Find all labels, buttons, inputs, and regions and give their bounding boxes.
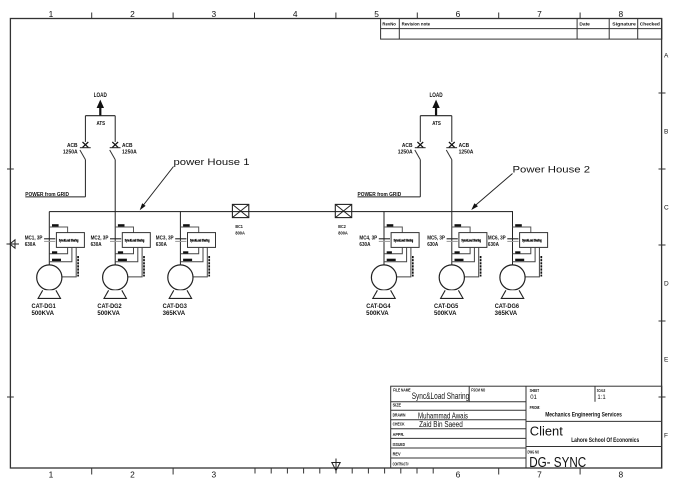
wire sync box 4 voltage signal — [384, 247, 407, 261]
value label BC1 800A — [235, 224, 245, 235]
svg-text:ATS: ATS — [432, 121, 441, 127]
label (illegible) voltage signal 3 — [183, 259, 192, 261]
svg-text:1250A: 1250A — [122, 150, 137, 156]
generator G1 circle — [37, 265, 62, 290]
svg-text:Power House 2: Power House 2 — [513, 165, 591, 175]
svg-text:MC2, 3P: MC2, 3P — [91, 235, 109, 241]
label (vertical, illegible) speed signal 4 — [412, 256, 414, 277]
svg-text:SCALE: SCALE — [597, 388, 606, 393]
svg-text:1250A: 1250A — [459, 150, 474, 156]
svg-text:POWER from GRID: POWER from GRID — [25, 192, 69, 198]
label (illegible) close signal 5 — [455, 251, 460, 253]
generator G1 stand — [38, 290, 60, 298]
sync &amp; load sharing controller box 3 — [188, 233, 216, 248]
svg-text:C: C — [664, 205, 669, 212]
load arrow (power house 2) — [432, 100, 439, 116]
breaker MC5 630A — [447, 239, 458, 242]
label (illegible) voltage signal 6 — [515, 259, 524, 261]
value label MC5, 3P 630A — [427, 235, 445, 248]
svg-text:500KVA: 500KVA — [97, 311, 120, 317]
wire POWER from GRID (PH2) — [358, 196, 421, 198]
svg-text:Sync&Load Sharing: Sync&Load Sharing — [394, 239, 414, 243]
generator G2 stand — [104, 290, 126, 298]
svg-text:500KVA: 500KVA — [32, 311, 55, 317]
svg-text:1250A: 1250A — [398, 150, 413, 156]
svg-text:Checked: Checked — [640, 21, 660, 26]
svg-text:POWER from GRID: POWER from GRID — [358, 192, 402, 198]
svg-text:MC1, 3P: MC1, 3P — [25, 235, 43, 241]
svg-text:Sync&Load Sharing: Sync&Load Sharing — [461, 239, 481, 243]
wire feeder bus to generator G2 — [114, 212, 116, 266]
wire sync box 3 voltage signal — [180, 247, 203, 261]
wire branch feeder to sync box 2 top — [115, 227, 133, 233]
wire sync box 2 voltage signal — [115, 247, 138, 261]
svg-text:MC3, 3P: MC3, 3P — [156, 235, 174, 241]
wire ATS to bus breaker (PH1) — [114, 116, 116, 142]
wire sync box 4 speed signal to generator — [397, 247, 411, 277]
label (vertical, illegible) speed signal 3 — [208, 256, 210, 277]
label (vertical, illegible) speed signal 6 — [540, 256, 542, 277]
svg-text:CAT-DG2: CAT-DG2 — [97, 304, 122, 310]
generator G4 circle — [371, 265, 396, 290]
bus coupler BC2 800A — [335, 204, 351, 217]
svg-text:MC6, 3P: MC6, 3P — [488, 235, 506, 241]
svg-text:CAT-DG4: CAT-DG4 — [366, 304, 391, 310]
svg-text:FSCM NO: FSCM NO — [471, 388, 486, 393]
breaker ACB 1250A (PH2 bus side) — [446, 142, 457, 160]
ATS switch (power house 1) — [85, 116, 115, 127]
wire ATS to grid breaker (PH2) — [419, 116, 421, 142]
svg-text:BC1: BC1 — [235, 224, 243, 229]
svg-text:7: 7 — [537, 9, 542, 19]
svg-text:630A: 630A — [91, 242, 102, 248]
svg-text:3: 3 — [211, 9, 216, 19]
wire main synchronizing bus — [49, 211, 513, 213]
label (illegible) voltage signal 5 — [455, 259, 464, 261]
breaker MC6 630A — [507, 239, 518, 242]
breaker MC3 630A — [175, 239, 186, 242]
wire sync box 5 close signal — [452, 247, 470, 253]
svg-text:ATS: ATS — [97, 121, 106, 127]
svg-text:800A: 800A — [338, 230, 348, 235]
svg-text:REV: REV — [393, 452, 401, 457]
wire sync box 1 close signal — [49, 247, 67, 253]
value label ACB 1250A (PH2 grid side) — [398, 143, 413, 156]
svg-text:DG- SYNC: DG- SYNC — [529, 454, 586, 471]
wire sync box 6 voltage signal — [513, 247, 536, 261]
wire grid breaker down (PH2) — [419, 160, 421, 197]
value label MC1, 3P 630A — [25, 235, 43, 248]
node label Power House 2 with leader arrow — [471, 165, 590, 211]
wire sync box 4 close signal — [384, 247, 402, 253]
wire bus breaker to main bus (PH2) — [451, 160, 453, 212]
value label BC2 800A — [338, 224, 348, 235]
wire sync box 2 speed signal to generator — [128, 247, 142, 277]
svg-text:CAT-DG3: CAT-DG3 — [163, 304, 188, 310]
wire branch feeder to sync box 1 top — [49, 227, 67, 233]
wire feeder bus to generator G5 — [451, 212, 453, 266]
value label MC2, 3P 630A — [91, 235, 109, 248]
svg-text:630A: 630A — [427, 242, 438, 248]
value label CAT-DG4 500KVA — [366, 304, 391, 317]
wire bus breaker to main bus (PH1) — [114, 160, 116, 212]
wire feeder bus to generator G4 — [383, 212, 385, 266]
wire sync box 1 voltage signal — [49, 247, 72, 261]
label (illegible) on branch wire 4 — [387, 224, 394, 226]
wire sync box 3 speed signal to generator — [193, 247, 207, 277]
svg-text:4: 4 — [293, 9, 298, 19]
svg-text:Lahore School Of Economics: Lahore School Of Economics — [571, 437, 639, 444]
svg-text:CAT-DG1: CAT-DG1 — [32, 304, 57, 310]
label (illegible) voltage signal 4 — [387, 259, 396, 261]
wire ATS to grid breaker (PH1) — [84, 116, 86, 142]
generator G6 circle — [500, 265, 525, 290]
wire sync box 2 close signal — [115, 247, 133, 253]
svg-text:630A: 630A — [156, 242, 167, 248]
wire feeder bus to generator G6 — [512, 212, 514, 266]
label (illegible) on branch wire 5 — [455, 224, 462, 226]
generator G3 circle — [168, 265, 193, 290]
value label MC6, 3P 630A — [488, 235, 506, 248]
wire branch feeder to sync box 6 top — [513, 227, 531, 233]
generator G5 stand — [441, 290, 463, 298]
breaker ACB 1250A (PH1 bus side) — [110, 142, 121, 160]
label (vertical, illegible) speed signal 1 — [77, 256, 79, 277]
svg-text:CAT-DG6: CAT-DG6 — [495, 304, 520, 310]
svg-text:ISSUED: ISSUED — [393, 442, 406, 447]
label (vertical, illegible) speed signal 5 — [480, 256, 482, 277]
label (illegible) close signal 4 — [387, 251, 392, 253]
label (illegible) on branch wire 6 — [515, 224, 522, 226]
value label ACB 1250A (PH1 grid side) — [63, 143, 78, 156]
svg-text:APPR.: APPR. — [393, 432, 405, 437]
bus coupler BC1 800A — [232, 204, 248, 217]
svg-text:F: F — [664, 433, 668, 440]
sync &amp; load sharing controller box 4 — [391, 233, 419, 248]
label (illegible) close signal 3 — [183, 251, 188, 253]
generator G6 stand — [501, 290, 523, 298]
breaker MC4 630A — [379, 239, 390, 242]
svg-text:LOAD: LOAD — [429, 92, 442, 99]
svg-text:1250A: 1250A — [63, 150, 78, 156]
svg-text:BC2: BC2 — [338, 224, 346, 229]
wire ATS to bus breaker (PH2) — [451, 116, 453, 142]
svg-text:Zaid Bin Saeed: Zaid Bin Saeed — [419, 420, 463, 429]
svg-text:Sync&Load Sharing: Sync&Load Sharing — [125, 239, 145, 243]
wire branch feeder to sync box 4 top — [384, 227, 402, 233]
svg-text:6: 6 — [456, 9, 461, 19]
generator G3 stand — [169, 290, 191, 298]
svg-text:630A: 630A — [25, 242, 36, 248]
svg-text:Mechanics Engineering Services: Mechanics Engineering Services — [545, 412, 622, 419]
svg-text:Sync&Load Sharing: Sync&Load Sharing — [522, 239, 542, 243]
svg-text:DRAWN: DRAWN — [393, 412, 406, 417]
svg-text:MC5, 3P: MC5, 3P — [427, 235, 445, 241]
svg-text:SHEET: SHEET — [530, 388, 540, 393]
breaker MC2 630A — [110, 239, 121, 242]
breaker ACB 1250A (PH1 grid side) — [80, 142, 91, 160]
sync &amp; load sharing controller box 1 — [56, 233, 84, 248]
generator G5 circle — [439, 265, 464, 290]
value label ACB 1250A (PH2 bus side) — [459, 143, 474, 156]
svg-text:power House 1: power House 1 — [174, 157, 250, 167]
svg-text:E: E — [664, 357, 669, 364]
wire sync box 1 speed signal to generator — [62, 247, 76, 277]
svg-text:6: 6 — [456, 469, 461, 479]
svg-text:ACB: ACB — [122, 143, 133, 149]
svg-text:ACB: ACB — [402, 143, 413, 149]
load arrow (power house 1) — [97, 100, 104, 116]
wire sync box 3 close signal — [180, 247, 198, 253]
wire branch feeder to sync box 5 top — [452, 227, 470, 233]
label (illegible) close signal 1 — [52, 251, 57, 253]
svg-text:Sync&Load Sharing: Sync&Load Sharing — [59, 239, 79, 243]
svg-text:1: 1 — [49, 469, 54, 479]
label (illegible) voltage signal 2 — [118, 259, 127, 261]
wire sync box 6 close signal — [513, 247, 531, 253]
value label CAT-DG1 500KVA — [32, 304, 57, 317]
svg-text:01: 01 — [530, 395, 537, 401]
svg-text:3: 3 — [211, 469, 216, 479]
svg-text:1:1: 1:1 — [597, 395, 606, 401]
svg-text:Sync&Load Sharing: Sync&Load Sharing — [190, 239, 210, 243]
value label CAT-DG6 365KVA — [495, 304, 520, 317]
svg-text:630A: 630A — [488, 242, 499, 248]
breaker MC1 630A — [44, 239, 55, 242]
svg-text:5: 5 — [374, 9, 379, 19]
svg-text:365KVA: 365KVA — [495, 311, 518, 317]
label (illegible) voltage signal 1 — [52, 259, 61, 261]
svg-text:CONTRACT#: CONTRACT# — [393, 461, 409, 466]
svg-text:8: 8 — [618, 469, 623, 479]
svg-text:Client: Client — [530, 423, 563, 438]
svg-text:800A: 800A — [235, 230, 245, 235]
label (illegible) on branch wire 1 — [52, 224, 59, 226]
svg-text:MC4, 3P: MC4, 3P — [359, 235, 377, 241]
sync &amp; load sharing controller box 2 — [122, 233, 150, 248]
svg-text:1: 1 — [49, 9, 54, 19]
value label CAT-DG5 500KVA — [434, 304, 459, 317]
svg-text:CHECK: CHECK — [393, 422, 405, 427]
svg-text:RevNo: RevNo — [382, 21, 396, 26]
value label ACB 1250A (PH1 bus side) — [122, 143, 137, 156]
svg-text:FILE NAME: FILE NAME — [393, 388, 411, 393]
wire feeder bus to generator G3 — [179, 212, 181, 266]
sync &amp; load sharing controller box 6 — [520, 233, 548, 248]
value label CAT-DG2 500KVA — [97, 304, 122, 317]
wire sync box 5 voltage signal — [452, 247, 475, 261]
wire grid breaker down (PH1) — [84, 160, 86, 197]
generator G4 stand — [373, 290, 395, 298]
wire sync box 6 speed signal to generator — [525, 247, 539, 277]
wire feeder bus to generator G1 — [48, 212, 50, 266]
label (illegible) close signal 2 — [118, 251, 123, 253]
label (illegible) on branch wire 2 — [118, 224, 125, 226]
svg-text:A: A — [664, 53, 669, 60]
svg-text:500KVA: 500KVA — [434, 311, 457, 317]
wire sync box 5 speed signal to generator — [464, 247, 478, 277]
svg-text:8: 8 — [618, 9, 623, 19]
svg-text:365KVA: 365KVA — [163, 311, 186, 317]
generator G2 circle — [103, 265, 128, 290]
label (illegible) on branch wire 3 — [183, 224, 190, 226]
wire branch feeder to sync box 3 top — [180, 227, 198, 233]
svg-text:SIZE: SIZE — [393, 403, 402, 408]
svg-text:2: 2 — [130, 9, 135, 19]
svg-text:Sync&Load Sharing: Sync&Load Sharing — [412, 391, 470, 401]
svg-text:2: 2 — [130, 469, 135, 479]
svg-text:Date: Date — [579, 21, 590, 26]
sync &amp; load sharing controller box 5 — [459, 233, 487, 248]
label (illegible) close signal 6 — [515, 251, 520, 253]
node label power House 1 with leader arrow — [140, 157, 250, 210]
svg-text:ACB: ACB — [459, 143, 470, 149]
svg-text:630A: 630A — [359, 242, 370, 248]
value label MC3, 3P 630A — [156, 235, 174, 248]
svg-text:FROM:: FROM: — [530, 405, 541, 410]
ATS switch (power house 2) — [420, 116, 452, 127]
wire POWER from GRID (PH1) — [25, 196, 85, 198]
svg-text:LOAD: LOAD — [94, 92, 107, 99]
value label CAT-DG3 365KVA — [163, 304, 188, 317]
svg-text:Signature: Signature — [612, 21, 636, 26]
breaker ACB 1250A (PH2 grid side) — [415, 142, 426, 160]
svg-text:Revision note: Revision note — [402, 21, 431, 26]
svg-text:CAT-DG5: CAT-DG5 — [434, 304, 459, 310]
value label MC4, 3P 630A — [359, 235, 377, 248]
svg-text:ACB: ACB — [67, 143, 78, 149]
label (vertical, illegible) speed signal 2 — [143, 256, 145, 277]
svg-text:B: B — [664, 129, 668, 136]
svg-text:500KVA: 500KVA — [366, 311, 389, 317]
svg-text:D: D — [664, 281, 669, 288]
